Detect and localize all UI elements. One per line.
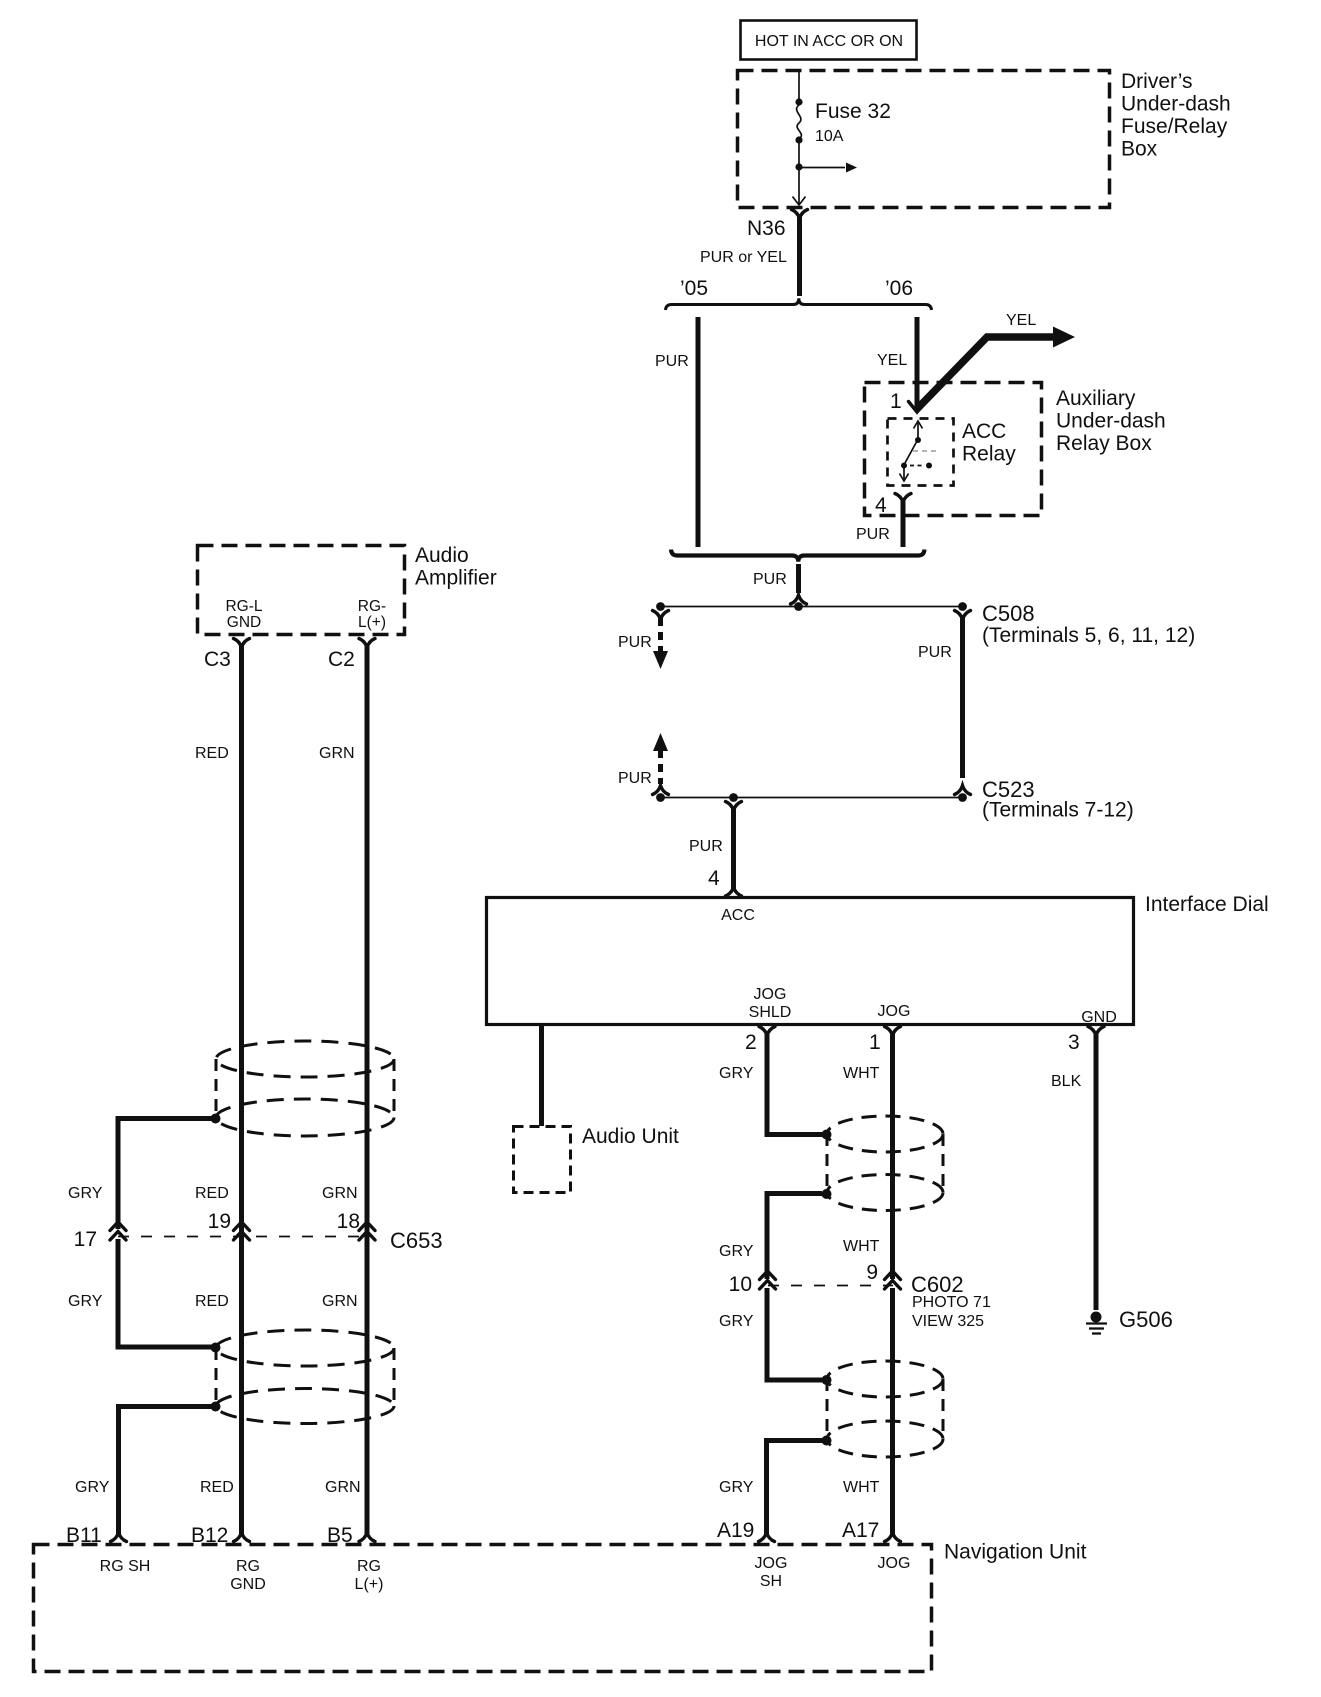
svg-text:L(+): L(+): [358, 614, 386, 631]
svg-text:PUR: PUR: [618, 634, 652, 651]
svg-text:Under-dash: Under-dash: [1121, 93, 1231, 116]
svg-text:GND: GND: [1081, 1009, 1117, 1026]
svg-text:WHT: WHT: [843, 1065, 880, 1082]
svg-text:GRY: GRY: [719, 1243, 754, 1260]
wire GRY (lower cylinder to pin B11): [75, 1407, 212, 1535]
wire GRY (C602 to lower cylinder): [719, 1288, 822, 1380]
svg-text:N36: N36: [747, 217, 786, 240]
wire YEL takeoff arrow: [915, 312, 1075, 411]
svg-text:Navigation Unit: Navigation Unit: [944, 1541, 1087, 1564]
wire WHT (pin 1 through cylinder to C602): [843, 1044, 893, 1279]
svg-text:17: 17: [74, 1228, 97, 1251]
connector C653: [74, 1210, 443, 1253]
svg-text:RG: RG: [236, 1558, 260, 1575]
svg-text:9: 9: [866, 1261, 878, 1284]
pin A19 connector: [717, 1519, 775, 1542]
svg-text:L(+): L(+): [355, 1576, 384, 1593]
svg-text:RG: RG: [357, 1558, 381, 1575]
svg-text:Box: Box: [1121, 138, 1158, 161]
svg-text:10A: 10A: [815, 128, 844, 145]
svg-text:RED: RED: [195, 1185, 229, 1202]
svg-text:YEL: YEL: [1006, 312, 1036, 329]
svg-text:’06: ’06: [885, 277, 913, 300]
svg-text:PUR: PUR: [753, 571, 787, 588]
amplifier box: Audio Amplifier: [198, 544, 497, 635]
svg-text:19: 19: [208, 1210, 231, 1233]
wire labels row: [195, 1185, 358, 1202]
relay box: Auxiliary Under-dash Relay Box: [865, 383, 1166, 516]
svg-text:Amplifier: Amplifier: [415, 567, 497, 590]
junction dot shield: [211, 1114, 221, 1124]
arrowhead into relay pin 1: [909, 402, 926, 413]
ground G506: [1086, 1307, 1173, 1334]
svg-text:GRY: GRY: [68, 1185, 103, 1202]
svg-text:GRY: GRY: [719, 1313, 754, 1330]
svg-text:GRN: GRN: [319, 745, 355, 762]
junction dot shield top: [211, 1343, 221, 1353]
svg-text:PUR: PUR: [856, 526, 890, 543]
svg-text:Relay Box: Relay Box: [1056, 432, 1152, 455]
svg-text:PUR: PUR: [655, 353, 689, 370]
pin 1 connector: [843, 1027, 901, 1083]
svg-text:JOG: JOG: [755, 1555, 788, 1572]
svg-text:4: 4: [875, 494, 887, 517]
svg-text:PUR: PUR: [689, 838, 723, 855]
pin B11 connector: [66, 1524, 127, 1547]
svg-text:G506: G506: [1119, 1307, 1173, 1332]
svg-text:VIEW 325: VIEW 325: [912, 1313, 984, 1330]
pin B5 connector: [327, 1524, 375, 1547]
svg-text:(Terminals 7-12): (Terminals 7-12): [982, 799, 1134, 822]
svg-text:JOG: JOG: [754, 986, 787, 1003]
wire GRY shield (cylinder to C653 pin 17): [68, 1119, 212, 1230]
node C508 bus: [656, 601, 1195, 647]
connector + dashed arrow down (left of C508): [618, 611, 669, 670]
wire GRY (C653 to lower cylinder): [68, 1239, 212, 1347]
navigation unit box: [34, 1541, 1087, 1672]
junction dot shield top: [822, 1130, 832, 1140]
wire GRY (lower cylinder to pin A19): [719, 1441, 822, 1535]
svg-text:4: 4: [708, 867, 720, 890]
svg-text:PUR: PUR: [918, 644, 952, 661]
wire GRY shield (cylinder to C602): [719, 1194, 822, 1280]
svg-text:SHLD: SHLD: [749, 1004, 792, 1021]
split brace 05/06: [666, 298, 932, 310]
svg-text:B11: B11: [66, 1524, 102, 1547]
junction dot shield bottom: [822, 1436, 832, 1446]
pin 3 connector: [1051, 1027, 1104, 1091]
dashed arrow up into C523 (left): [618, 733, 669, 795]
svg-text:RED: RED: [195, 745, 229, 762]
interface dial box: [487, 893, 1269, 1026]
wire PUR below brace: [753, 564, 807, 604]
svg-text:1: 1: [890, 390, 902, 413]
relay contact internals: [900, 421, 940, 481]
wire GRN (C2 down to B5): [319, 656, 367, 1534]
node C523 bus: [656, 777, 1134, 822]
svg-text:GRY: GRY: [75, 1479, 110, 1496]
svg-text:Driver’s: Driver’s: [1121, 70, 1193, 93]
svg-text:GRN: GRN: [322, 1293, 358, 1310]
wire PUR '05 branch: [655, 317, 698, 547]
svg-text:SH: SH: [760, 1573, 782, 1590]
svg-text:10: 10: [729, 1273, 752, 1296]
pin C2 connector: [328, 639, 375, 672]
svg-text:PUR: PUR: [618, 770, 652, 787]
junction dot shield top: [822, 1375, 832, 1385]
wire labels row: [195, 1293, 358, 1310]
svg-text:B5: B5: [327, 1524, 353, 1547]
junction dot shield bottom: [822, 1189, 832, 1199]
wire labels row: [200, 1479, 361, 1496]
pin A17 connector: [842, 1519, 901, 1542]
fuse box: Driver's Under-dash Fuse/Relay Box: [738, 70, 1231, 208]
wire from box top to fuse: [798, 70, 800, 101]
svg-text:3: 3: [1068, 1031, 1080, 1054]
fuse F32 10A: [795, 98, 890, 145]
svg-text:GND: GND: [227, 614, 261, 631]
svg-text:BLK: BLK: [1051, 1073, 1082, 1090]
svg-text:PUR or YEL: PUR or YEL: [700, 249, 787, 266]
wire BLK (pin 3 to ground): [1094, 1044, 1099, 1310]
svg-text:A19: A19: [717, 1519, 754, 1542]
svg-text:1: 1: [869, 1031, 881, 1054]
merge brace to single PUR: [671, 550, 925, 562]
svg-text:2: 2: [745, 1031, 757, 1054]
svg-text:C2: C2: [328, 648, 355, 671]
svg-text:Fuse/Relay: Fuse/Relay: [1121, 115, 1228, 138]
pin 4 connector: [856, 494, 911, 548]
shield cylinder lower right: [827, 1361, 943, 1457]
svg-text:YEL: YEL: [877, 352, 907, 369]
wire GRY shield (pin 2 to upper cylinder): [767, 1044, 822, 1135]
svg-text:RG-: RG-: [358, 598, 386, 615]
svg-text:GRY: GRY: [719, 1065, 754, 1082]
wire WHT (C602 to pin A17): [843, 1288, 893, 1534]
svg-text:C653: C653: [390, 1228, 443, 1253]
svg-text:RED: RED: [200, 1479, 234, 1496]
svg-text:PHOTO 71: PHOTO 71: [912, 1294, 991, 1311]
svg-text:B12: B12: [191, 1524, 228, 1547]
junction dot + branch arrow inside fuse box: [795, 140, 857, 173]
pin C3 connector: [204, 639, 250, 672]
svg-text:RG-L: RG-L: [225, 598, 262, 615]
shield cylinder upper left: [216, 1041, 394, 1136]
node HOT IN ACC OR ON: [741, 21, 917, 60]
svg-text:HOT IN ACC OR ON: HOT IN ACC OR ON: [755, 33, 903, 50]
svg-text:JOG: JOG: [878, 1555, 911, 1572]
svg-text:RG SH: RG SH: [100, 1558, 151, 1575]
relay U ACC Relay: [888, 419, 1017, 486]
wire fuse to box edge with arrowhead: [793, 167, 806, 205]
svg-text:ACC: ACC: [721, 907, 755, 924]
svg-text:GRN: GRN: [325, 1479, 361, 1496]
svg-text:(Terminals 5, 6, 11, 12): (Terminals 5, 6, 11, 12): [982, 624, 1195, 647]
wire stub to audio unit: [539, 1026, 544, 1126]
wire PUR or YEL: [700, 226, 800, 296]
svg-text:A17: A17: [842, 1519, 879, 1542]
svg-text:’05: ’05: [680, 277, 708, 300]
connector C602: [729, 1261, 991, 1330]
svg-text:Relay: Relay: [962, 443, 1016, 466]
junction dot shield bottom: [211, 1402, 221, 1412]
shield cylinder lower left: [216, 1330, 394, 1424]
svg-text:C508: C508: [982, 601, 1035, 626]
svg-text:18: 18: [337, 1210, 360, 1233]
connector into C523 from right wire: [955, 786, 971, 795]
svg-text:RED: RED: [195, 1293, 229, 1310]
svg-text:Auxiliary: Auxiliary: [1056, 387, 1136, 410]
wire PUR down to interface dial pin 4: [689, 802, 742, 897]
svg-text:GRY: GRY: [68, 1293, 103, 1310]
svg-text:Interface Dial: Interface Dial: [1145, 893, 1269, 916]
shield cylinder upper right: [827, 1116, 943, 1211]
wire YEL '06 branch: [877, 317, 917, 409]
svg-text:ACC: ACC: [962, 420, 1006, 443]
svg-text:Audio Unit: Audio Unit: [582, 1125, 679, 1148]
svg-text:GND: GND: [230, 1576, 266, 1593]
svg-text:WHT: WHT: [843, 1238, 880, 1255]
connector N36: [747, 210, 808, 241]
svg-text:Fuse 32: Fuse 32: [815, 100, 891, 123]
svg-text:Audio: Audio: [415, 544, 469, 567]
svg-text:Under-dash: Under-dash: [1056, 410, 1166, 433]
svg-text:JOG: JOG: [878, 1003, 911, 1020]
svg-text:GRN: GRN: [322, 1185, 358, 1202]
pin B12 connector: [191, 1524, 250, 1547]
wire RED (C3 down to B12): [195, 656, 242, 1534]
svg-text:WHT: WHT: [843, 1479, 880, 1496]
svg-text:GRY: GRY: [719, 1479, 754, 1496]
svg-text:C3: C3: [204, 648, 231, 671]
wire PUR right side C508 to C523: [918, 611, 971, 779]
audio unit box: [514, 1125, 680, 1193]
pin 2 connector: [719, 1027, 775, 1083]
